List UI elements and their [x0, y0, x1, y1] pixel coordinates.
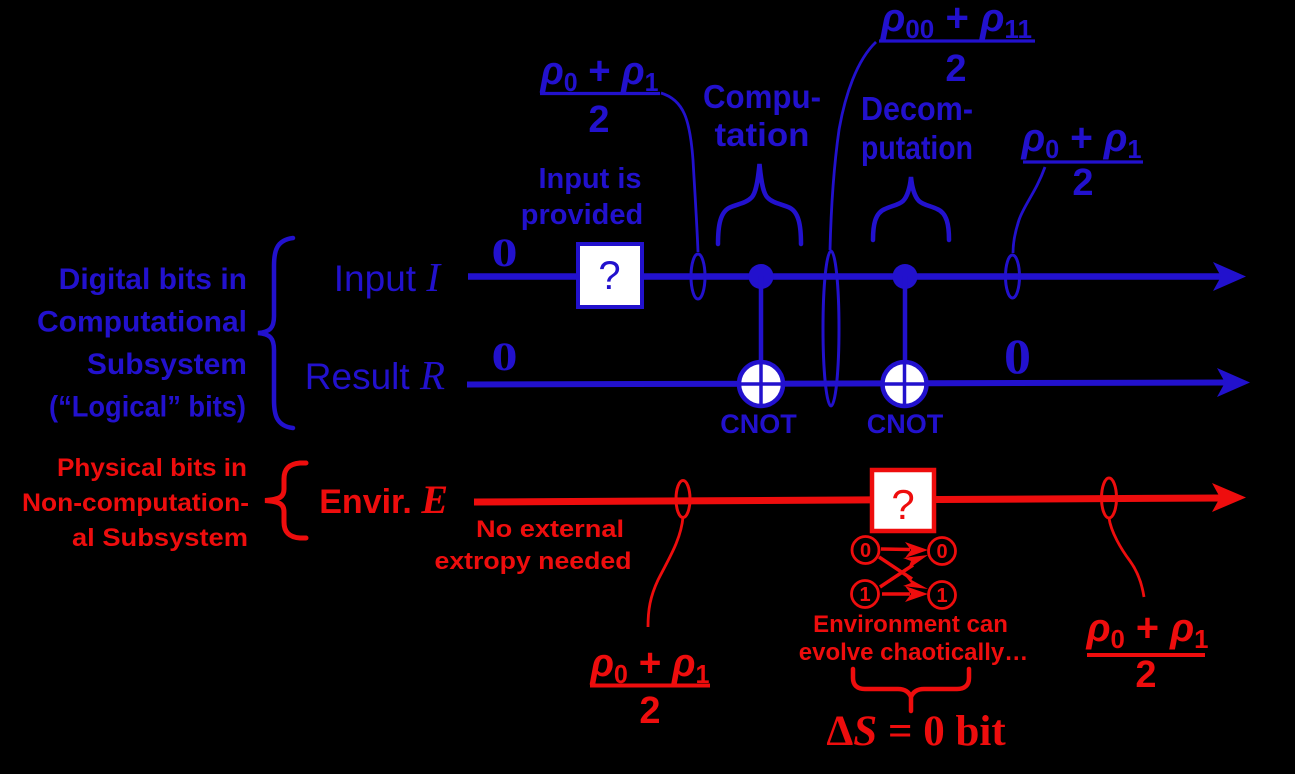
- leader: from top-right fraction to ellipse on Input line: [1013, 167, 1045, 253]
- arrow: 0 to 1 (crossing): [879, 557, 912, 579]
- svg-text:Environment can: Environment can: [813, 611, 1008, 638]
- gate: CNOT 2 control dot on Input line: [893, 264, 918, 289]
- svg-text:2: 2: [1072, 162, 1093, 204]
- leader: from top-center fraction to tall ellipse: [830, 42, 876, 250]
- gate: unknown-input box ? on Input line: [578, 244, 642, 307]
- svg-text:0: 0: [1004, 328, 1031, 384]
- formula: (rho0+rho1)/2 top-right: [1021, 116, 1143, 204]
- node: state 0 right: [929, 538, 956, 565]
- svg-text:Computational: Computational: [37, 306, 247, 339]
- formula: (rho0+rho1)/2 bottom-right red: [1086, 606, 1209, 696]
- brace: computation over-brace: [718, 164, 801, 244]
- svg-text:1: 1: [936, 585, 947, 607]
- svg-text:Input I: Input I: [334, 254, 443, 300]
- svg-text:0: 0: [860, 540, 871, 562]
- state marker: ellipse on Envir line (left): [676, 481, 690, 518]
- node: state 1 right: [929, 582, 956, 609]
- arrow: 1 to 0 (crossing): [880, 565, 913, 587]
- svg-text:ρ0 + ρ1: ρ0 + ρ1: [1021, 116, 1142, 164]
- svg-text:Subsystem: Subsystem: [87, 348, 247, 381]
- formula: (rho0+rho1)/2 top-left: [540, 49, 660, 141]
- svg-text:Result R: Result R: [305, 352, 445, 398]
- svg-text:Decom-: Decom-: [861, 90, 973, 127]
- state marker: tall ellipse spanning Input and Result lines: [823, 251, 839, 406]
- wire: Envir E timeline: [474, 498, 1222, 502]
- svg-text:Compu-: Compu-: [703, 78, 821, 115]
- gate: CNOT 1 control dot on Input line: [749, 264, 774, 289]
- svg-text:tation: tation: [715, 116, 810, 153]
- svg-text:CNOT: CNOT: [720, 409, 797, 439]
- arrow: 1 to 1: [882, 592, 910, 596]
- left label: Physical bits in Non-computational Subsystem: [22, 454, 249, 552]
- leader: from right Envir ellipse down to red fraction: [1109, 518, 1144, 597]
- svg-text:1: 1: [859, 584, 870, 606]
- svg-text:Physical bits in: Physical bits in: [57, 454, 247, 482]
- svg-text:ΔS = 0 bit: ΔS = 0 bit: [826, 708, 1006, 755]
- svg-text:2: 2: [588, 99, 609, 141]
- svg-text:al Subsystem: al Subsystem: [72, 524, 248, 552]
- state marker: ellipse on Input line (after decomputation): [1006, 255, 1020, 298]
- svg-text:Digital bits in: Digital bits in: [59, 263, 247, 296]
- state marker: ellipse on Input line (after input): [691, 254, 705, 299]
- wire: Result R timeline: [467, 383, 1226, 385]
- arrowhead: Result R line: [1217, 368, 1250, 397]
- svg-text:ρ0 + ρ1: ρ0 + ρ1: [540, 49, 659, 97]
- arrowhead: Input I line: [1213, 262, 1246, 291]
- brace: red group brace for environment: [265, 463, 306, 538]
- wire: Input I timeline: [468, 273, 1222, 280]
- wire: CNOT 2 vertical connector: [903, 276, 908, 405]
- svg-text:?: ?: [598, 254, 620, 298]
- svg-text:extropy needed: extropy needed: [435, 548, 632, 575]
- formula: (rho0+rho1)/2 bottom-left red: [590, 641, 710, 732]
- svg-text:Input is: Input is: [538, 163, 641, 195]
- arrowhead: Envir E line: [1212, 483, 1246, 512]
- brace: decomputation over-brace: [873, 177, 949, 240]
- brace: red under-brace for Delta S: [853, 669, 969, 711]
- diagram: environment chaotic evolution (0/1 circles with crossing arrows): [852, 537, 956, 609]
- gate: unknown environment box ? on Envir line: [872, 470, 934, 531]
- svg-text:2: 2: [639, 690, 660, 732]
- svg-text:No external: No external: [476, 516, 624, 543]
- state marker: ellipse on Envir line (right): [1102, 478, 1117, 518]
- svg-text:ρ0 + ρ1: ρ0 + ρ1: [590, 641, 710, 689]
- brace: blue group brace for logical bits: [258, 238, 293, 428]
- svg-text:2: 2: [945, 48, 966, 90]
- svg-text:0: 0: [492, 334, 518, 379]
- svg-text:provided: provided: [521, 199, 643, 231]
- svg-text:2: 2: [1135, 654, 1156, 696]
- node: state 1 left: [852, 581, 879, 608]
- svg-text:ρ0 + ρ1: ρ0 + ρ1: [1086, 606, 1209, 654]
- left label: Digital bits in Computational Subsystem: [37, 263, 247, 424]
- svg-text:Non-computation-: Non-computation-: [22, 489, 249, 517]
- wire: CNOT 1 vertical connector: [759, 276, 764, 405]
- leader: from left Envir ellipse down to red fraction: [648, 517, 683, 627]
- svg-text:?: ?: [891, 481, 914, 528]
- gate: CNOT 2 XOR target on Result line: [883, 362, 927, 406]
- svg-text:(“Logical” bits): (“Logical” bits): [49, 391, 246, 424]
- svg-text:putation: putation: [861, 129, 973, 166]
- svg-text:0: 0: [492, 230, 518, 275]
- svg-text:Envir. E: Envir. E: [319, 477, 448, 522]
- leader: from top-left fraction to ellipse on Input line: [661, 93, 698, 252]
- gate: CNOT 1 XOR target on Result line: [739, 362, 783, 406]
- svg-text:evolve chaotically…: evolve chaotically…: [799, 639, 1028, 666]
- node: state 0 left: [852, 537, 879, 564]
- svg-text:0: 0: [936, 541, 947, 563]
- arrow: 0 to 0: [881, 547, 910, 551]
- formula: (rho00+rho11)/2 top-center: [879, 0, 1035, 90]
- svg-text:CNOT: CNOT: [867, 409, 944, 439]
